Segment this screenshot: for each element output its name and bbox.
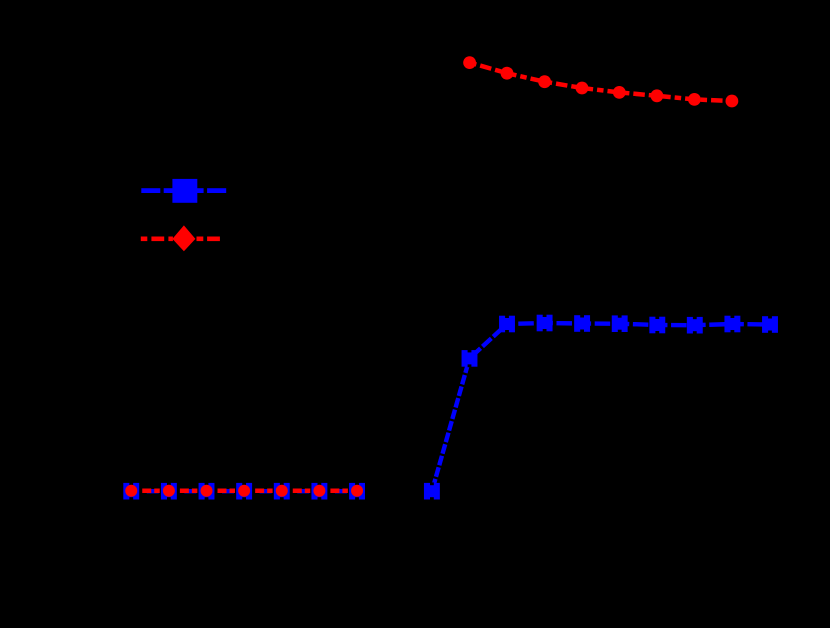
legend: red diamond marker [172,225,195,251]
legend: blue square marker [172,179,197,203]
blue series: curve marker notches [430,314,772,500]
red series: top circle markers [463,56,738,107]
legend: blue dashed line sample [141,188,226,193]
blue series: second rising dashed segment [470,324,508,358]
red series: left cluster circle markers [125,485,363,497]
blue series: curve square markers [424,315,778,500]
blue series: left cluster square markers [123,483,365,500]
red series: top dash-dot line [470,63,732,101]
legend: red dash-dot line sample [141,237,220,242]
blue series: steep rising dashed segment [432,358,470,491]
blue series: left cluster dashed line [131,489,357,493]
blue series: left cluster marker notches [129,482,359,500]
red series: left cluster dash-dot line [131,489,357,494]
blue series: plateau dashed line [507,323,770,325]
